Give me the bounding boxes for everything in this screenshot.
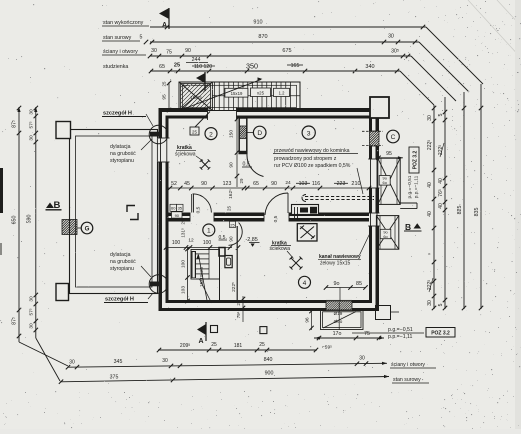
stairs direction arrow <box>199 255 208 303</box>
svg-text:90: 90 <box>201 181 207 187</box>
room label 4 <box>299 276 311 288</box>
svg-text:75: 75 <box>166 50 172 56</box>
svg-text:żelowy 15x15: żelowy 15x15 <box>320 260 351 266</box>
dimension row 840 bottom <box>68 363 387 367</box>
wall interior mid horizontal centre <box>214 213 264 217</box>
svg-text:110 120: 110 120 <box>194 64 212 70</box>
svg-text:375: 375 <box>110 374 119 380</box>
svg-text:40: 40 <box>438 203 444 209</box>
pit box bottom with diagonal <box>321 310 364 330</box>
svg-text:223: 223 <box>337 181 346 187</box>
svg-text:rur PCV Ø100 ze spadkiem 0,5%: rur PCV Ø100 ze spadkiem 0,5% <box>274 163 351 169</box>
svg-text:25: 25 <box>230 222 235 227</box>
window opening right wall lower <box>368 213 380 226</box>
wall interior mid horizontal left <box>169 213 191 217</box>
terrace wall junction fill bottom <box>150 282 159 287</box>
interior dim row 100 12 100 <box>166 247 232 249</box>
svg-text:910: 910 <box>253 20 262 26</box>
svg-text:165: 165 <box>291 63 300 69</box>
wall exterior outer ring <box>159 108 380 112</box>
svg-text:×: × <box>428 252 433 255</box>
svg-text:90: 90 <box>185 48 191 54</box>
svg-text:Ø19: Ø19 <box>334 311 343 316</box>
door arc corridor to room4 <box>229 223 243 246</box>
dimension row sciany i otwory top <box>150 55 411 57</box>
step bottom right corner <box>376 306 391 320</box>
svg-text:30: 30 <box>29 323 35 329</box>
fireplace kominek <box>292 205 319 215</box>
right chain sciany i otwory vertical <box>433 105 435 309</box>
door arc room1 to room2 <box>191 194 193 213</box>
svg-text:na grubość: na grubość <box>110 259 136 265</box>
svg-text:350: 350 <box>246 62 258 71</box>
exterior stair upper right with cross <box>378 158 400 204</box>
svg-text:103: 103 <box>181 286 187 294</box>
svg-text:0,5: 0,5 <box>196 206 202 213</box>
svg-text:870: 870 <box>258 34 267 40</box>
section marker A porch <box>204 72 206 91</box>
svg-text:A: A <box>199 338 204 345</box>
studzienka square bottom left <box>211 326 218 333</box>
svg-text:przewód nawiewowy do kominka: przewód nawiewowy do kominka <box>274 148 350 154</box>
svg-text:p.g.=−0,51: p.g.=−0,51 <box>388 327 413 333</box>
svg-text:30: 30 <box>151 48 157 54</box>
svg-text:100: 100 <box>172 240 181 246</box>
porch direction arrow <box>186 80 261 109</box>
svg-text:ściany i otwory: ściany i otwory <box>103 49 138 55</box>
entrance porch outline <box>179 82 300 111</box>
exterior stair step lines right <box>400 202 417 204</box>
partition line corridor room4 <box>236 226 238 300</box>
svg-text:60: 60 <box>171 206 176 211</box>
svg-text:96: 96 <box>305 317 310 323</box>
svg-text:150: 150 <box>229 130 235 138</box>
dimension row 900 bottom <box>60 377 389 382</box>
svg-text:15x19: 15x19 <box>231 91 243 96</box>
terrace outer wall <box>70 130 158 294</box>
svg-text:4: 4 <box>303 280 307 287</box>
svg-text:65: 65 <box>253 181 259 187</box>
detail circle szczegol H top <box>149 125 168 144</box>
duct dashed line to fireplace <box>305 196 374 198</box>
svg-text:85: 85 <box>356 281 362 287</box>
svg-text:A: A <box>162 22 167 29</box>
exterior stair lower right with cross <box>376 216 398 250</box>
window C dylatacja hatch right wall <box>369 131 380 146</box>
svg-text:p.g.=−0,51: p.g.=−0,51 <box>407 175 413 198</box>
leader to duct <box>357 168 363 194</box>
floor drain X room4 <box>290 257 303 270</box>
svg-text:stan surowy: stan surowy <box>103 35 132 41</box>
interior dim 90 85 room4 <box>326 287 366 289</box>
dim 95 right <box>378 157 403 159</box>
svg-text:1.2: 1.2 <box>279 91 285 96</box>
axis label D <box>253 126 266 139</box>
svg-text:123: 123 <box>223 181 232 187</box>
svg-text:40: 40 <box>427 182 433 188</box>
dimension row 910 stan wykonczony <box>150 26 426 28</box>
fireplace flue box with X <box>297 224 317 241</box>
svg-text:25: 25 <box>181 219 186 224</box>
entrance door opening top wall <box>208 107 237 120</box>
svg-text:G: G <box>85 226 90 233</box>
svg-text:6o: 6o <box>383 234 387 239</box>
svg-text:103: 103 <box>299 181 308 187</box>
svg-text:30: 30 <box>388 34 394 40</box>
svg-text:2: 2 <box>209 131 213 138</box>
porch dim 95 left <box>168 82 170 111</box>
terrace centre marks <box>127 206 135 213</box>
svg-text:90: 90 <box>271 181 277 187</box>
svg-text:-2,85: -2,85 <box>246 237 258 243</box>
wall interior room2 hall vertical <box>239 118 247 154</box>
svg-text:30: 30 <box>427 115 433 121</box>
svg-text:840: 840 <box>264 357 273 363</box>
scan streak top right <box>468 0 521 58</box>
floor drain X room2 <box>200 159 211 169</box>
terrace inner wall line <box>76 136 153 287</box>
svg-text:116: 116 <box>312 181 320 187</box>
studzienka box top right <box>370 97 389 118</box>
svg-text:40: 40 <box>427 211 433 217</box>
svg-text:25: 25 <box>211 342 217 348</box>
svg-text:25: 25 <box>174 63 180 69</box>
svg-text:styropianu: styropianu <box>110 158 134 164</box>
POZ 3.2 box rotated <box>409 147 419 173</box>
interior dim vertical 100 103 <box>187 248 189 303</box>
svg-text:52: 52 <box>171 181 177 187</box>
svg-text:szczegół H: szczegół H <box>103 111 132 117</box>
dim line 150 90 room2 vertical <box>236 118 238 187</box>
section marker A top <box>168 8 170 29</box>
svg-text:na grubość: na grubość <box>110 151 136 157</box>
dim 96 rotated bottom <box>311 310 313 331</box>
svg-text:5: 5 <box>438 113 444 116</box>
svg-text:650: 650 <box>12 216 18 225</box>
svg-text:3: 3 <box>307 131 311 138</box>
svg-text:825: 825 <box>457 206 463 215</box>
svg-text:Ø6o: Ø6o <box>334 319 343 324</box>
svg-text:835: 835 <box>474 208 480 217</box>
svg-text:244: 244 <box>192 57 201 63</box>
svg-text:95: 95 <box>162 94 168 100</box>
svg-text:30: 30 <box>29 135 35 141</box>
svg-text:studzienka: studzienka <box>103 64 128 70</box>
leader dylatacja top <box>141 139 152 150</box>
svg-text:25: 25 <box>226 206 231 211</box>
room label 3 <box>302 126 315 139</box>
dimension row 209 25 181 25 bottom <box>158 349 317 351</box>
svg-text:25: 25 <box>162 81 167 86</box>
svg-text:35: 35 <box>178 206 183 211</box>
leader dylatacja bottom <box>141 266 151 277</box>
svg-text:styropianu: styropianu <box>110 266 134 272</box>
svg-text:24: 24 <box>285 180 291 186</box>
interior dimension row middle <box>166 187 369 189</box>
svg-text:17o: 17o <box>333 331 342 337</box>
svg-text:30: 30 <box>359 356 365 362</box>
terrace door opening left wall <box>158 138 170 162</box>
leader wall to axis D <box>247 131 254 133</box>
detail label G <box>81 222 93 234</box>
svg-text:90: 90 <box>175 213 180 218</box>
svg-text:95: 95 <box>386 151 392 157</box>
svg-text:100: 100 <box>181 260 187 268</box>
svg-text:szczegół H: szczegół H <box>105 297 134 303</box>
right chain 825 vertical <box>463 92 465 309</box>
svg-text:181: 181 <box>234 343 243 349</box>
svg-text:65: 65 <box>159 64 165 70</box>
svg-text:stan wykończony: stan wykończony <box>103 20 144 26</box>
svg-text:90: 90 <box>229 236 234 242</box>
svg-text:D: D <box>257 130 262 137</box>
window opening right wall upper <box>368 159 380 188</box>
svg-text:9o: 9o <box>334 281 340 287</box>
wall interior mid horizontal right <box>289 213 369 217</box>
svg-text:stan surowy: stan surowy <box>393 377 421 383</box>
door arc hall to room3 <box>265 193 288 215</box>
vent grille box room2 <box>190 127 199 135</box>
room label 1 <box>203 224 215 236</box>
svg-text:ściany i otwory: ściany i otwory <box>391 362 425 368</box>
stair arrow tail through entrance <box>195 112 210 128</box>
scan artifact left edge <box>0 168 3 213</box>
svg-text:90: 90 <box>229 162 235 168</box>
svg-text:30: 30 <box>69 360 75 366</box>
svg-text:dylatacja: dylatacja <box>110 144 131 150</box>
svg-text:345: 345 <box>114 359 123 365</box>
svg-text:25: 25 <box>192 129 197 134</box>
staircase interior <box>191 250 220 280</box>
porch left section hatch and cross <box>179 82 212 111</box>
svg-text:40: 40 <box>438 178 444 184</box>
svg-text:30: 30 <box>162 358 168 364</box>
fixture box corridor <box>225 256 232 268</box>
svg-text:30: 30 <box>29 296 35 302</box>
dimension row 170 75 bottom <box>314 337 384 339</box>
terrace pilaster bottom-left <box>56 284 69 301</box>
studzienka square bottom right <box>260 327 267 334</box>
porch stairs treads <box>214 83 216 111</box>
window opening bottom wall <box>326 300 352 312</box>
svg-text:prowadzony pod stropem z: prowadzony pod stropem z <box>274 156 337 162</box>
svg-text:45: 45 <box>184 181 190 187</box>
right chain 835 vertical <box>480 84 482 309</box>
dimension row 870 stan surowy <box>150 41 419 43</box>
svg-text:x25: x25 <box>257 90 265 95</box>
boxed dim 25 mid wall right <box>230 221 236 227</box>
svg-text:340: 340 <box>365 64 374 70</box>
svg-text:900: 900 <box>265 370 274 376</box>
svg-text:p.p.=−1,11: p.p.=−1,11 <box>388 334 413 340</box>
POZ 3.2 box bottom <box>426 328 455 338</box>
svg-text:6o: 6o <box>383 180 387 185</box>
left chain 650 vertical <box>18 107 20 342</box>
svg-text:25: 25 <box>259 342 265 348</box>
svg-text:15x25: 15x25 <box>190 95 202 100</box>
svg-text:100: 100 <box>203 240 212 246</box>
left chain 590 vertical <box>35 107 37 338</box>
section marker A bottom <box>205 322 207 341</box>
room label 2 <box>205 128 217 140</box>
svg-text:210: 210 <box>351 181 360 187</box>
detail circle szczegol H bottom <box>149 275 168 294</box>
porch stair labels <box>225 88 248 97</box>
svg-text:12: 12 <box>188 238 194 244</box>
svg-text:5: 5 <box>140 35 143 41</box>
terrace pilaster top-left <box>56 122 71 139</box>
svg-text:5: 5 <box>438 303 444 306</box>
door jamb room1 stairs <box>219 248 225 257</box>
axis label C <box>387 130 400 143</box>
door arc hall to room2 <box>247 154 264 177</box>
svg-text:POZ 3.2: POZ 3.2 <box>431 331 450 337</box>
svg-text:p.p.=−1,11: p.p.=−1,11 <box>414 175 420 198</box>
section marker B left <box>46 203 54 209</box>
wall exterior inner ring <box>166 116 373 119</box>
boxed dims at mid wall left <box>170 204 177 211</box>
svg-text:POZ 3.2: POZ 3.2 <box>413 150 419 169</box>
stair area right edge line <box>219 256 221 300</box>
svg-text:30: 30 <box>427 300 433 306</box>
svg-text:C: C <box>391 134 396 141</box>
svg-text:675: 675 <box>282 48 291 54</box>
svg-text:dylatacja: dylatacja <box>110 252 131 258</box>
svg-text:1: 1 <box>207 228 211 235</box>
dimension row studzienka top <box>150 70 400 72</box>
svg-text:30: 30 <box>29 109 35 115</box>
svg-text:0,5: 0,5 <box>273 215 279 222</box>
terrace wall junction fill top <box>150 132 159 137</box>
svg-text:75: 75 <box>364 331 370 337</box>
svg-text:29: 29 <box>239 178 244 183</box>
svg-text:590: 590 <box>27 215 33 224</box>
right chain stan surowy vertical <box>444 97 446 309</box>
